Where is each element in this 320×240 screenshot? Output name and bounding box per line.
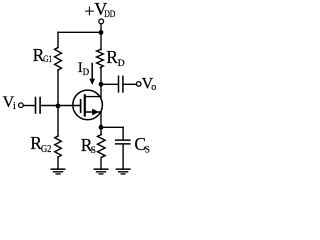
svg-text:DD: DD	[104, 9, 116, 19]
svg-text:+: +	[84, 1, 94, 21]
svg-text:G2: G2	[41, 144, 51, 155]
svg-text:D: D	[118, 59, 125, 69]
svg-text:i: i	[13, 101, 16, 112]
svg-text:R: R	[106, 47, 118, 67]
svg-text:D: D	[83, 67, 90, 77]
svg-text:S: S	[91, 146, 96, 156]
svg-text:S: S	[145, 146, 150, 156]
svg-text:o: o	[151, 82, 156, 93]
svg-text:G1: G1	[43, 55, 52, 65]
